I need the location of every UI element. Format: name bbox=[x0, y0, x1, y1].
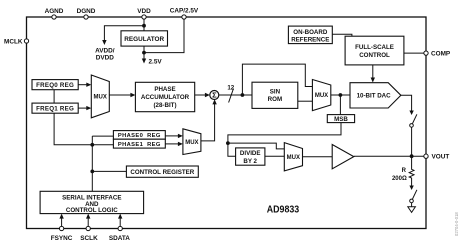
wire PHASE1 to MUX bbox=[165, 143, 179, 145]
wire phase MUX to adder bbox=[201, 101, 215, 141]
junction bus PHASE1 bbox=[90, 143, 94, 147]
register FREQ0 REG bbox=[32, 80, 78, 90]
svg-text:MUX: MUX bbox=[287, 155, 300, 161]
junction divide bypass bbox=[226, 141, 230, 145]
pin SDATA bbox=[118, 226, 122, 230]
svg-text:200Ω: 200Ω bbox=[392, 176, 407, 182]
wire full-scale control to DAC bbox=[372, 65, 374, 79]
serial bus vertical bbox=[91, 136, 93, 191]
junction VOUT node bbox=[410, 154, 414, 158]
full-scale control block bbox=[345, 36, 404, 65]
junction after adder bbox=[241, 93, 245, 97]
svg-text:PHASE: PHASE bbox=[154, 86, 175, 93]
svg-text:AGND: AGND bbox=[45, 8, 64, 15]
regulator block bbox=[121, 31, 168, 46]
wire switch to ground bbox=[411, 203, 413, 207]
arrow to AVDD/DVDD bbox=[102, 40, 106, 45]
bus width slash 12 bbox=[229, 89, 234, 103]
ground bbox=[408, 207, 416, 213]
svg-text:FSYNC: FSYNC bbox=[51, 235, 73, 242]
wire SCLK to serial interface bbox=[87, 218, 89, 229]
svg-text:BY 2: BY 2 bbox=[243, 158, 257, 165]
svg-text:FREQ1 REG: FREQ1 REG bbox=[36, 106, 74, 113]
wire switch to VOUT node bbox=[411, 127, 413, 156]
svg-text:COMP: COMP bbox=[431, 50, 451, 57]
wire MUX to DAC bbox=[331, 94, 350, 96]
svg-text:ROM: ROM bbox=[268, 96, 282, 103]
wire regulator junction to CAP/2.5V pin bbox=[144, 17, 184, 53]
wire phase bypass to MUX bbox=[242, 64, 312, 95]
chip boundary box AD9833 bbox=[27, 17, 427, 229]
svg-text:Σ: Σ bbox=[212, 91, 217, 100]
svg-text:SIN: SIN bbox=[270, 88, 281, 95]
wire between FREQ0 and FREQ1 bbox=[53, 90, 55, 103]
svg-text:DVDD: DVDD bbox=[96, 55, 114, 62]
svg-text:ON-BOARD: ON-BOARD bbox=[293, 29, 328, 36]
svg-text:DIVIDE: DIVIDE bbox=[240, 150, 261, 157]
svg-text:ACCUMULATOR: ACCUMULATOR bbox=[141, 94, 190, 101]
sin rom block bbox=[252, 82, 298, 108]
wire FREQ1 to serial bus bbox=[54, 113, 113, 145]
divide by 2 block bbox=[236, 148, 265, 165]
wire buffer to VOUT bbox=[354, 155, 424, 157]
junction below VDD bbox=[142, 24, 146, 28]
wire DAC to switch bbox=[401, 95, 412, 111]
svg-text:AD9833: AD9833 bbox=[267, 204, 300, 216]
svg-text:02704-0-018: 02704-0-018 bbox=[454, 212, 459, 236]
on-board reference block bbox=[288, 26, 332, 43]
wire adder to SIN ROM bbox=[219, 94, 252, 96]
wire reference to full-scale control bbox=[332, 34, 352, 36]
control register block bbox=[126, 166, 198, 177]
junction below regulator bbox=[142, 51, 146, 55]
wire MSB to divide branch bbox=[228, 123, 341, 157]
wire FREQ1 to MUX bbox=[78, 107, 87, 109]
dac 10-bit block bbox=[350, 83, 401, 108]
wire divide by 2 to MUX bbox=[265, 155, 284, 157]
svg-text:FULL-SCALE: FULL-SCALE bbox=[355, 44, 394, 51]
adder sigma bbox=[210, 91, 219, 100]
wire MUX to phase accumulator bbox=[109, 94, 131, 96]
wire phase accumulator to adder bbox=[195, 94, 206, 96]
svg-text:MSB: MSB bbox=[334, 116, 348, 123]
pin SCLK bbox=[86, 226, 90, 230]
buffer amplifier bbox=[332, 145, 354, 169]
svg-text:VOUT: VOUT bbox=[432, 154, 450, 161]
svg-text:PHASE1 REG: PHASE1 REG bbox=[118, 142, 161, 148]
svg-text:10-BIT DAC: 10-BIT DAC bbox=[357, 92, 392, 99]
svg-text:(28-BIT): (28-BIT) bbox=[153, 102, 176, 109]
wire bus to PHASE0 bbox=[92, 135, 113, 137]
junction bus control register bbox=[90, 170, 94, 174]
switch sleep (lower) bbox=[409, 186, 413, 191]
svg-text:MUX: MUX bbox=[315, 93, 328, 99]
wire junction to AVDD/DVDD branch bbox=[104, 26, 144, 41]
register FREQ1 REG bbox=[32, 103, 78, 113]
svg-text:PHASE0 REG: PHASE0 REG bbox=[118, 133, 161, 139]
wire bus to control register bbox=[92, 170, 126, 172]
wire sin rom to MUX bbox=[298, 100, 313, 102]
pin VOUT bbox=[424, 154, 428, 158]
junction MSB tap bbox=[339, 93, 343, 97]
wire junction to MSB bbox=[339, 95, 341, 115]
wire PHASE0 to MUX bbox=[165, 135, 179, 137]
mux phase select bbox=[183, 129, 201, 155]
register PHASE1 REG bbox=[113, 139, 165, 148]
wire FSYNC to serial interface bbox=[61, 218, 63, 229]
wire full-scale control to COMP pin bbox=[404, 52, 424, 54]
svg-text:R: R bbox=[402, 168, 407, 174]
svg-text:AVDD/: AVDD/ bbox=[95, 47, 115, 54]
pin FSYNC bbox=[59, 226, 63, 230]
pin AGND bbox=[52, 15, 56, 19]
svg-text:12: 12 bbox=[227, 84, 234, 91]
wire MUX to buffer bbox=[303, 156, 333, 158]
svg-text:SCLK: SCLK bbox=[80, 235, 98, 242]
mux dac source select bbox=[312, 80, 330, 111]
svg-text:CONTROL: CONTROL bbox=[359, 52, 390, 59]
wire FREQ0 to MUX bbox=[78, 84, 87, 86]
resistor R 200ohm bbox=[409, 156, 414, 186]
pin DGND bbox=[84, 15, 88, 19]
svg-text:2.5V: 2.5V bbox=[149, 58, 163, 65]
svg-text:REFERENCE: REFERENCE bbox=[291, 36, 329, 43]
serial interface block bbox=[40, 191, 144, 213]
switch sleep (upper) bbox=[409, 111, 413, 116]
svg-text:VDD: VDD bbox=[137, 8, 151, 15]
svg-text:CAP/2.5V: CAP/2.5V bbox=[170, 8, 199, 15]
svg-text:CONTROL REGISTER: CONTROL REGISTER bbox=[130, 169, 194, 176]
svg-text:MCLK: MCLK bbox=[4, 38, 23, 45]
register PHASE0 REG bbox=[113, 131, 165, 140]
wire VDD drop to junction bbox=[143, 17, 145, 31]
mux msb select bbox=[284, 143, 302, 171]
svg-text:MUX: MUX bbox=[94, 95, 107, 101]
pin MCLK bbox=[24, 39, 28, 43]
svg-text:REGULATOR: REGULATOR bbox=[124, 36, 164, 43]
pin CAP/2.5V bbox=[182, 15, 186, 19]
phase accumulator block bbox=[135, 82, 194, 111]
label AVDD/DVDD bbox=[95, 47, 115, 61]
svg-text:FREQ0 REG: FREQ0 REG bbox=[36, 82, 74, 89]
wire SDATA to serial interface bbox=[119, 218, 121, 229]
svg-text:MUX: MUX bbox=[185, 140, 198, 146]
pin COMP bbox=[424, 51, 428, 55]
svg-text:DGND: DGND bbox=[77, 8, 96, 15]
pin VDD bbox=[142, 15, 146, 19]
mux frequency select bbox=[91, 75, 109, 118]
arrow 2.5V down bbox=[142, 59, 146, 64]
wire regulator output bbox=[143, 46, 145, 59]
svg-text:CONTROL LOGIC: CONTROL LOGIC bbox=[66, 207, 118, 214]
wire divide bypass to MUX bbox=[228, 143, 284, 149]
register MSB bbox=[327, 115, 354, 123]
svg-text:SDATA: SDATA bbox=[109, 235, 130, 242]
